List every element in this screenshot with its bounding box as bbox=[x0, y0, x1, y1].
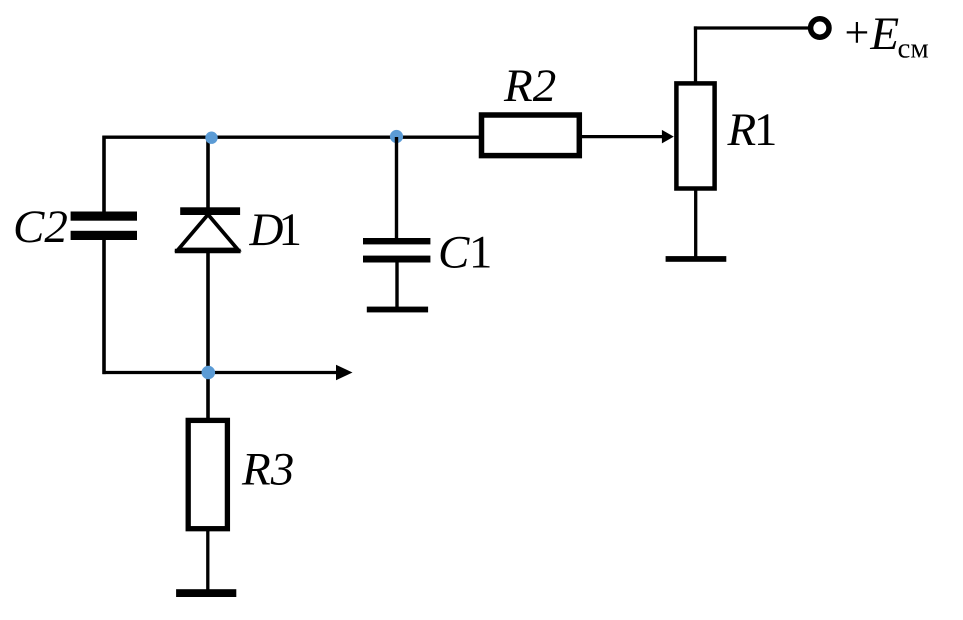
node C dot bbox=[202, 366, 216, 380]
wire C1 top lead bbox=[395, 137, 398, 239]
diode D1 triangle bbox=[178, 215, 238, 250]
capacitor C1 bbox=[363, 238, 430, 263]
diode D1 base bar bbox=[175, 249, 241, 253]
wire R1 top lead bbox=[694, 26, 697, 83]
svg-text:C1: C1 bbox=[438, 227, 492, 279]
resistor R3 bbox=[188, 420, 227, 528]
ground R3 bbox=[176, 589, 236, 597]
wire node to R3 bbox=[206, 373, 210, 419]
svg-text:C2: C2 bbox=[13, 201, 68, 253]
svg-text:R1: R1 bbox=[727, 104, 778, 156]
ground R1 bbox=[666, 256, 727, 262]
arrowhead into R1 bbox=[662, 130, 674, 144]
diode D1 cathode bar bbox=[180, 207, 240, 215]
node B dot bbox=[390, 130, 403, 143]
capacitor C2 bbox=[71, 212, 137, 241]
resistor R1 bbox=[676, 83, 714, 188]
wire terminal horizontal bbox=[694, 26, 809, 29]
wire R3 bottom lead bbox=[206, 529, 209, 590]
svg-text:D1: D1 bbox=[249, 204, 302, 256]
resistor R2 bbox=[482, 115, 580, 156]
wire C2 top lead bbox=[102, 136, 106, 213]
svg-text:R3: R3 bbox=[241, 443, 294, 495]
wire D1 top lead bbox=[206, 137, 210, 210]
terminal circle +Eсм bbox=[811, 19, 829, 37]
arrowhead lower bus bbox=[336, 365, 353, 380]
wire top bus bbox=[103, 136, 480, 139]
node A dot bbox=[205, 132, 217, 144]
C1 bottom termination bar bbox=[367, 307, 428, 313]
wire R2 right lead bbox=[582, 135, 663, 138]
wire C1 bottom lead bbox=[395, 262, 398, 308]
wire D1 bottom lead bbox=[206, 251, 210, 374]
wire R1 bottom lead bbox=[694, 188, 697, 257]
svg-text:R2: R2 bbox=[503, 60, 556, 112]
wire C2 bottom lead bbox=[102, 239, 106, 374]
wire lower bus bbox=[103, 371, 340, 374]
